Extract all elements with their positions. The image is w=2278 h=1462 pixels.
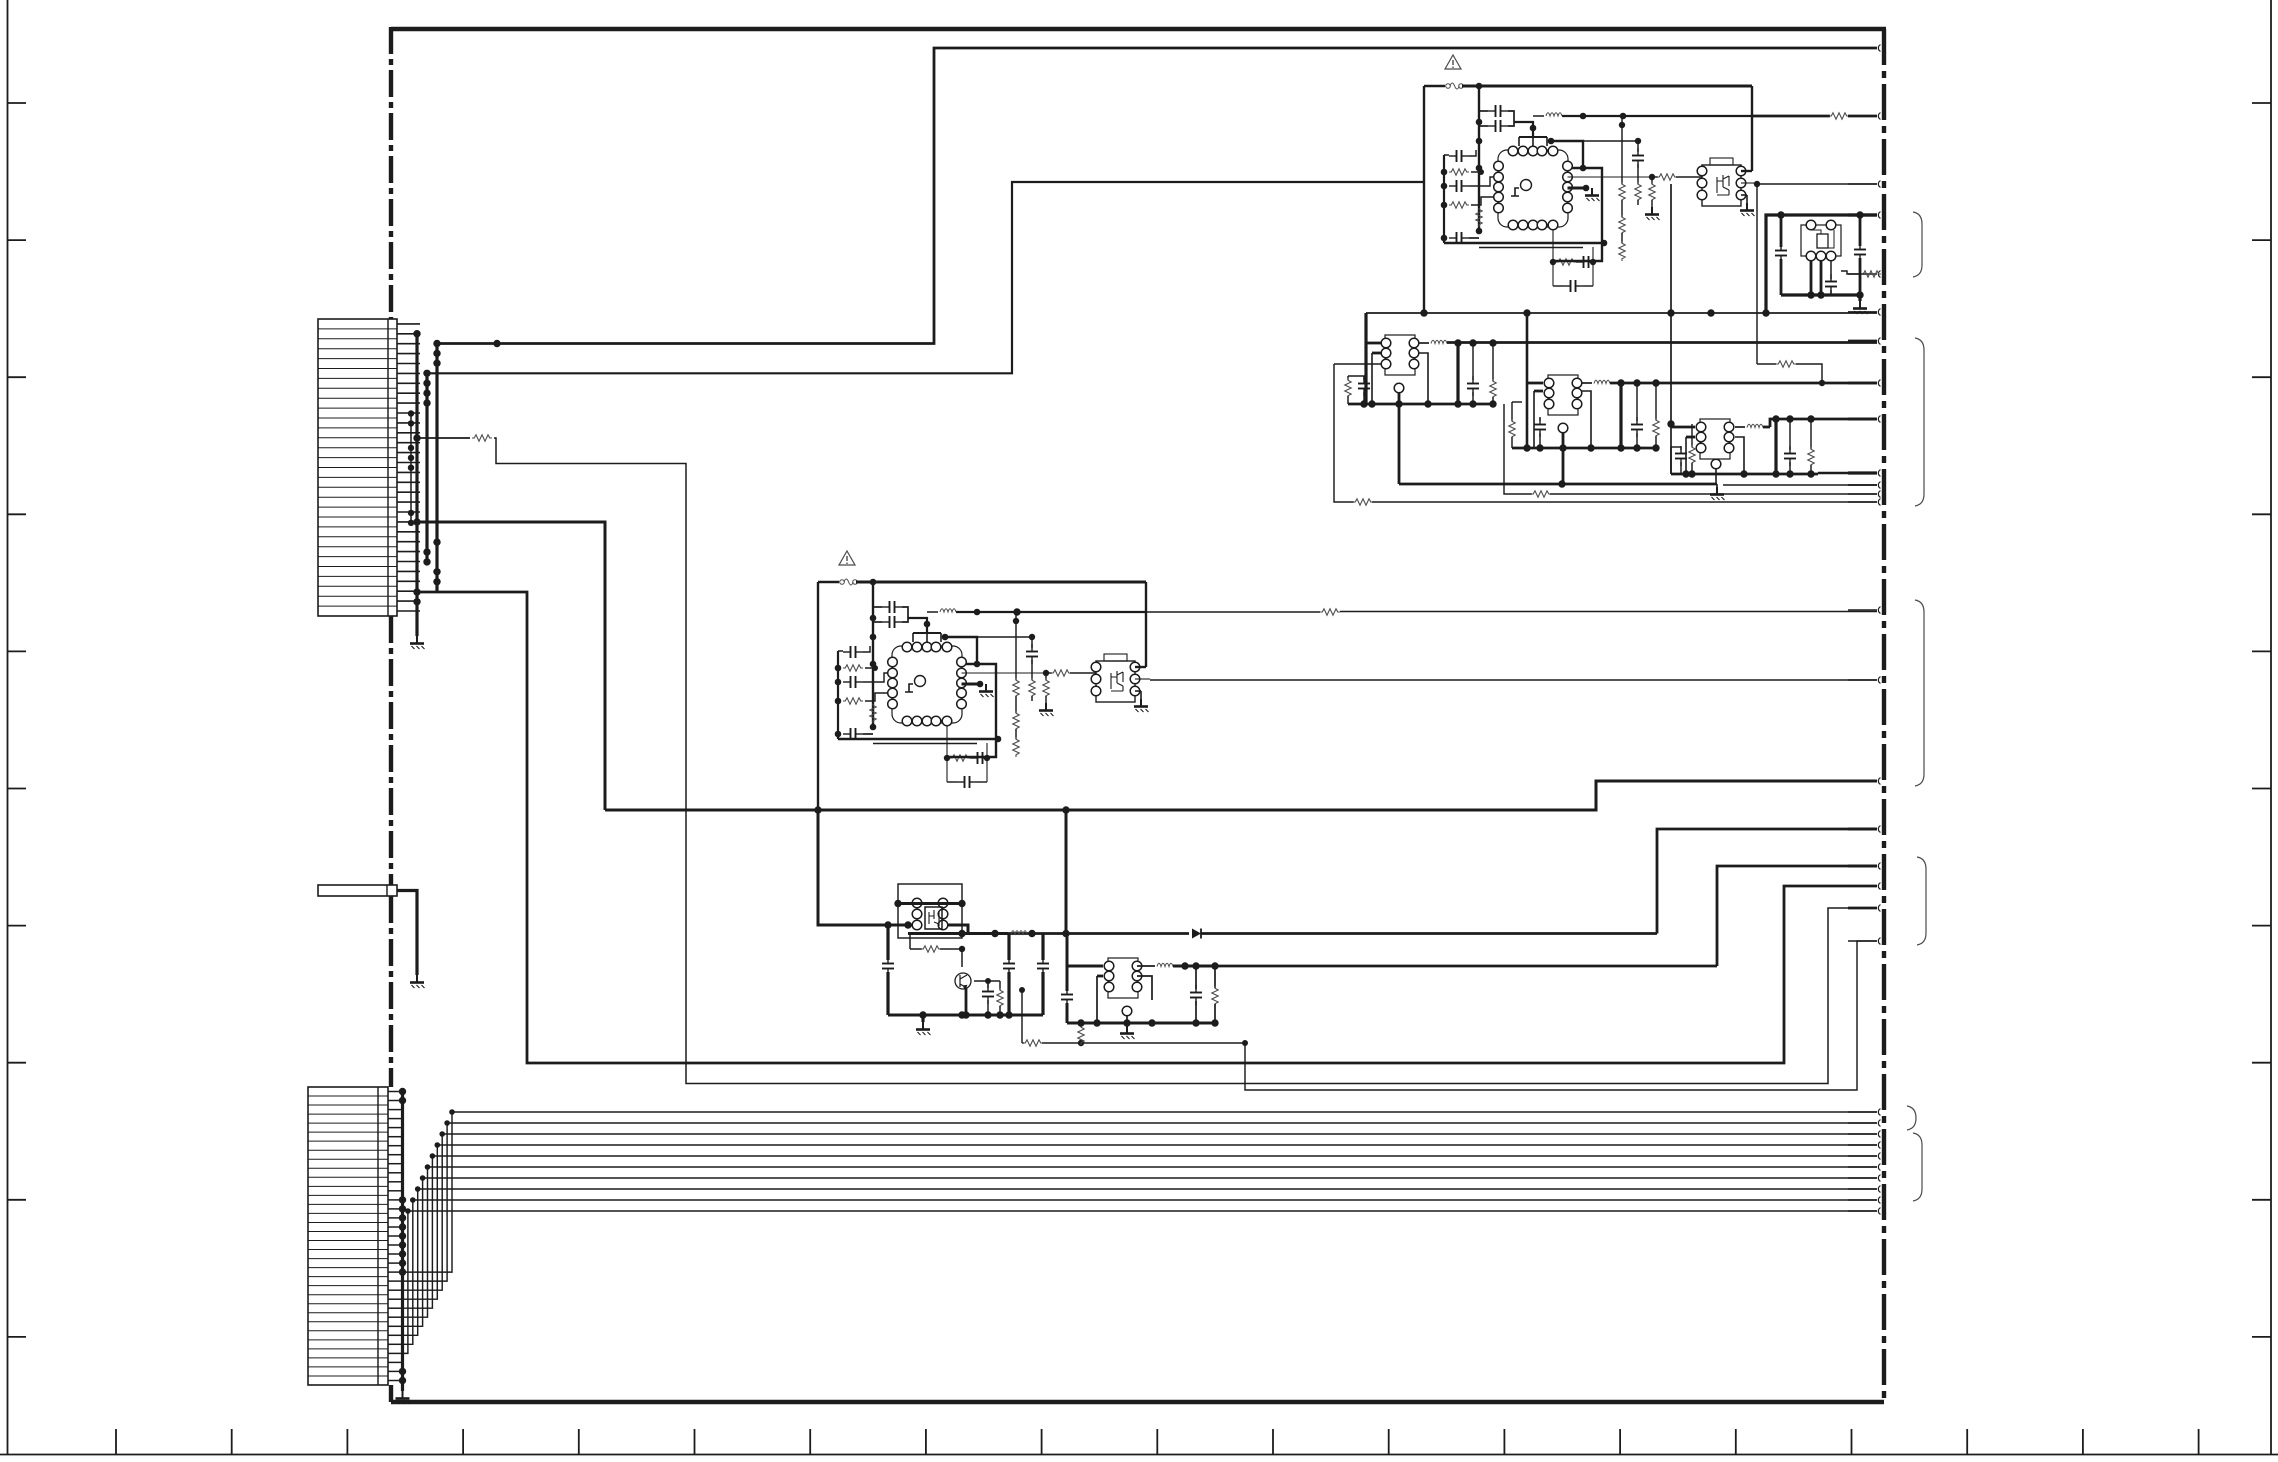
bus wire stub [1848,1177,1877,1179]
ruler tick bottom [115,1429,117,1455]
wire stub to edge y=494 [1848,493,1877,495]
resistor 2 l2 [843,665,863,671]
ruler tick bottom [1156,1429,1158,1455]
wire y485 to stub [1723,484,1877,486]
CN-C main bus wire [401,1092,404,1392]
ruler tick bottom [1619,1429,1621,1455]
bus wire stub [1848,1155,1877,1157]
wire stub to edge y=48 [1848,47,1877,49]
ruler tick right [2252,239,2271,241]
ruler tick right [2252,513,2271,515]
ruler tick right [2252,788,2271,790]
resistor column 2 r1 [1015,612,1017,680]
resistor 1 l4 [1449,202,1469,208]
thin wire y1043 with resistor [1021,990,1023,1043]
inner rail 2 [872,582,874,729]
cap column x888 [886,925,889,960]
capacitor C-11 [1488,105,1508,117]
ruler tick left [8,1336,27,1338]
8pin out wire 1 [1741,182,1756,184]
ruler tick bottom [2198,1429,2200,1455]
ruler tick left [8,1199,27,1201]
U6 right column [1774,419,1777,474]
resistor t-l [1345,378,1351,398]
right rail 1 [1751,86,1753,171]
comb feed 1 [1514,122,1533,137]
U8 right columns [1195,966,1197,989]
wire stub to edge y=829 [1848,828,1877,831]
capacitor C-21 [882,601,902,613]
wire C continues to stub y908 [494,438,1877,1084]
U4 hookup wires [1366,342,1381,345]
wire 8pin2 out to stub y680 [1150,679,1877,681]
bottom rail 2 1 [1479,247,1583,249]
wire stub to edge y=886 [1848,885,1877,887]
ruler tick bottom [694,1429,696,1455]
resistor column 1 r1 [1621,116,1623,184]
U5 bottom rail [1512,447,1656,450]
connector CN-C (bottom-left, 33-pin) [308,1087,388,1385]
ruler tick bottom [1388,1429,1390,1455]
ruler tick bottom [1272,1429,1274,1455]
ruler tick bottom [231,1429,233,1455]
U6 pin5 [1711,459,1721,469]
ruler tick bottom [2082,1429,2084,1455]
U5 out rail y383 [1610,382,1877,385]
capacitor 2 b2 [970,752,990,764]
mid rail y810 [605,781,1877,810]
transistor Q1 [955,973,971,989]
diode wire to stub y829 [1657,829,1877,934]
ground U7 [921,1015,924,1022]
resistor 1 l2 [1449,169,1469,175]
page frame: bottom ruler line [0,1454,2278,1456]
brace group 3 [1915,600,1924,786]
U8 wire to stub y866 [1717,866,1877,966]
wire stub to edge y=419 [1848,418,1877,421]
8pin top right wire 2 [1135,666,1146,668]
ruler tick left [8,513,27,515]
U7 pins [912,898,922,908]
cap/res small x988/x1000 [987,981,989,988]
wire stub to edge y=215 [1848,213,1877,216]
wire bead1 to stub y116 with resistor [1752,115,1830,118]
capacitor 1 l3 [1449,180,1469,192]
capacitor C-12 [1488,120,1508,132]
wire y473 to stub [1818,472,1877,475]
block border: left dash-dot segment 2 [389,616,393,885]
resistor 1 b1 [1556,259,1576,265]
IC U3 (4-pin) [1801,220,1841,261]
wire stub to edge y=274 [1848,273,1877,275]
ferrite U4 [1419,342,1429,344]
bus wire stub [1848,1122,1877,1124]
wire stub to edge y=866 [1848,865,1877,868]
4pin cluster top rail [1766,215,1877,313]
resistor column 1 r3 [1651,177,1653,184]
RC net right 1 [1592,247,1594,286]
block border: left dash-dot segment 1 [389,27,393,319]
capacitor 2 l5 [843,728,863,740]
bead wire 1 [1562,115,1752,117]
connector CN-A (left, 30-pin) [318,319,397,616]
IC U7 (6-pin regulator) outer box [898,884,962,938]
ferrite U5 [1582,382,1592,384]
resistor 1 lv [1476,207,1482,227]
U5 right column [1619,383,1622,448]
wire stub to edge y=941 [1848,940,1877,942]
res drop x1081 [1080,1023,1082,1027]
pin comb 1 [1519,136,1547,138]
bottom rail 1 1 [1444,242,1604,244]
wire stub to edge y=908 [1848,907,1877,910]
U8 bottom rail [1067,1022,1215,1025]
bottom rail 2 2 [873,743,977,745]
elbow to right pins 2 [945,637,977,664]
U8 left feeds [1066,934,1069,992]
ferrite bead 1 [1533,115,1544,117]
wire E : CN-A pin to lower rail y1063 [417,592,1877,1063]
wire to inline resistor 2 [962,672,1047,674]
wire stub to edge y=680 [1848,679,1877,681]
IC U-1b (8-pin) [1697,158,1746,206]
brace group 4 [1917,857,1926,945]
bus wire stub [1848,1188,1877,1190]
ruler tick right [2252,1199,2271,1201]
ruler tick left [8,376,27,378]
wire D : CN-A pin to mid rail y810 [417,522,605,810]
U7 top rail [898,902,962,905]
capacitor 2 b3 [957,776,977,788]
wire stub to edge y=781 [1848,780,1877,783]
capacitor 1 b2 [1576,256,1596,268]
elbow to right pins 1 [1551,141,1583,168]
ruler tick left [8,239,27,241]
connector CN-B (left small) [318,885,397,896]
brace group 1 [1913,212,1922,277]
RC net left 2 [946,725,948,782]
ground 8pin 1 [1740,203,1755,216]
resistor inline 1 [1657,174,1677,180]
wire stub to edge y=610 [1848,609,1877,611]
wire B : CN-A pin6 to U1 rail [427,182,1424,373]
ruler tick right [2252,102,2271,104]
capacitor 4p-l [1775,243,1787,263]
top rail 1 [1424,85,1445,87]
U7 bottom rail [888,1014,1043,1017]
page frame: left ruler line [7,0,9,1455]
U4 pin5 drop [1394,383,1404,393]
CN-C bus staircase risers [403,1112,453,1272]
ruler tick bottom [1041,1429,1043,1455]
IC U4 (6-pin) [1381,335,1419,375]
capacitor 4p-m [1825,274,1837,294]
IC U6 (6-pin) [1696,419,1734,459]
ground 8pin 2 [1134,699,1149,712]
ruler tick bottom [925,1429,927,1455]
bus wire stub [1848,1199,1877,1201]
ground near pins 2 [979,684,994,697]
ruler tick bottom [1735,1429,1737,1455]
resistor 2 l4 [843,698,863,704]
fuse 1 [1446,83,1464,89]
block border: right dash-dot edge [1882,29,1886,1402]
vertical link x1757 [1756,184,1758,364]
wire stub to edge y=383 [1848,382,1877,385]
ruler tick bottom [462,1429,464,1455]
capacitor 1 b3 [1563,280,1583,292]
capacitor 2 l1 [843,646,863,658]
top rail 2 [818,581,839,583]
cap column 2 r2 [977,636,1032,638]
U4 bottom rail [1348,403,1493,406]
8pin top right wire 1 [1741,170,1752,172]
jumper resistor to mid cluster [1757,363,1776,365]
U5 left column [1511,402,1513,421]
cap column x1009 [1007,934,1010,961]
cluster2 left rail extension down [818,809,898,925]
vertical link x1671 [1670,184,1672,474]
ferrite bead 2 [927,611,938,613]
block border: left dash-dot segment 3 [389,896,393,1087]
connector CN-C pin stubs [388,1091,403,1093]
ferrite U7 [1011,931,1027,934]
wire bead2 to stub y610 with resistor [1146,611,1320,613]
ruler tick right [2252,1062,2271,1064]
cap column x1043 [1041,934,1044,961]
left rail 2 [817,582,819,809]
wire to inline resistor 1 [1568,176,1653,178]
page frame: right ruler line [2270,0,2272,1455]
4pin cluster right cap leg [1859,215,1862,246]
wire stub to edge y=502 [1848,501,1877,503]
ruler tick left [8,788,27,790]
capacitor 1 l1 [1449,150,1469,162]
ruler tick bottom [346,1429,348,1455]
brace group 2 [1915,338,1924,506]
U5 pin5 drop [1558,423,1568,433]
capacitor 2 l3 [843,676,863,688]
CN-A pin bus wires [415,334,418,636]
wire stub to edge y=473 [1848,471,1877,474]
block border: bottom edge [391,1400,1884,1405]
brace group 5 [1907,1106,1916,1130]
ruler tick bottom [1966,1429,1968,1455]
U7 out rail y933 [948,925,968,933]
ruler tick bottom [809,1429,811,1455]
resistor inline 2 [1051,670,1071,676]
U4 right column [1456,343,1459,404]
wire 8pin1 out to stub y184 [1756,183,1877,185]
wire stub to edge y=341 [1848,340,1877,343]
U7 inner body [925,907,942,929]
ferrite U8 [1137,965,1155,967]
connector CN-A pin stubs [397,323,420,325]
U7 left feed [818,924,912,927]
ground rail y484 [1399,483,1717,486]
IC U-2b (8-pin) [1091,654,1140,702]
thin wire y494 with resistor [1504,404,1532,494]
bottom rail 1 2 [838,738,998,740]
U6 out rail y424 [1763,426,1770,429]
left rail 1 [1423,86,1425,313]
ruler tick bottom [578,1429,580,1455]
warning triangle 1 [1445,55,1461,69]
wire stub to edge y=485 [1848,484,1877,486]
capacitor 4p-r [1854,242,1866,262]
ruler tick bottom [1503,1429,1505,1455]
resistor R-a [472,435,492,441]
4pin bottom rail [1781,293,1860,296]
bus wire stub [1848,1133,1877,1135]
wire C : CN-A via resistor R-a [417,437,470,439]
4pin resistor to stub y274 [1841,271,1864,274]
ruler tick bottom [1851,1429,1853,1455]
bus wire stub [1848,1144,1877,1146]
left column rail 2 [837,651,839,739]
brace group 6 [1913,1133,1922,1201]
U8 out rail y966 [1173,965,1215,968]
U7 resistor to transistor [909,934,911,950]
bus bundle horizontal wires [452,1111,1877,1113]
capacitor C-22 [882,616,902,628]
wire stub to edge y=184 [1848,183,1877,185]
cap column 1 r2 [1583,140,1638,142]
capacitor t-l2 [1363,376,1365,380]
resistor column 2 r3 [1045,673,1047,680]
inner rail 1 [1478,86,1480,233]
diode D1 [1192,929,1201,939]
ground near pins 1 [1585,188,1600,201]
pin comb 2 [913,632,941,634]
ruler tick right [2252,925,2271,927]
ruler tick right [2252,376,2271,378]
RC net left 1 [1552,229,1554,286]
fuse 2 [840,579,858,585]
IC U5 (6-pin) [1544,375,1582,415]
ground below CN-A [410,636,425,649]
bus wire stub [1848,1111,1877,1113]
resistor 2 b1 [950,755,970,761]
capacitor 1 l5 [1449,232,1469,244]
U5 left drop [1526,313,1529,448]
ruler tick left [8,102,27,104]
ground trio [1710,487,1725,500]
U8 pin5 + ground [1122,1006,1132,1016]
block border: left dash-dot segment 4 [389,1385,393,1402]
4pin cluster left cap leg [1780,215,1783,247]
thin wire y502 with resistor [1334,364,1354,502]
ruler tick right [2252,1336,2271,1338]
U6 bottom rail [1671,473,1818,476]
IC U-2 (QFP) [888,642,967,726]
ground 4p [1858,295,1861,301]
block border: top edge [391,27,1886,32]
ruler tick left [8,650,27,652]
8pin out wire 2 [1135,678,1150,680]
thick right bend 2 [947,664,996,757]
wire stub to edge y=116 [1848,115,1877,117]
U6 left column [1670,447,1672,474]
vertical x1066 link [1065,810,1068,934]
warning triangle 2 [839,551,855,565]
comb feed 2 [908,618,927,633]
IC U8 (6-pin) [1104,958,1142,998]
right rail 2 [1145,582,1147,667]
RC net right 2 [986,743,988,782]
4pin pin drops [1810,261,1813,295]
ground below CN-C [396,1391,411,1404]
cap inline x1067 [1061,987,1073,1007]
U4 out rail y343 [1447,341,1877,344]
Q1 emitter drop [965,988,968,1015]
thick right bend 1 [1553,168,1602,261]
ferrite U6 [1735,426,1745,428]
IC U-1 (QFP) [1494,146,1573,230]
bus wire stub [1848,1210,1877,1212]
wire F : lower thin rail y1090 [1245,941,1877,1090]
rail y313 [1366,312,1877,314]
bead wire 2 [956,611,1146,613]
CN-B wire to ground [397,891,417,976]
wire stub to edge y=312 [1848,311,1877,313]
resistor 2 lv [870,703,876,723]
wire A : CN-A pin3 to top edge stub [437,48,1877,344]
trio left drop [1364,313,1367,376]
ruler tick left [8,1062,27,1064]
ruler tick right [2252,650,2271,652]
left column rail 1 [1443,155,1445,243]
ruler tick left [8,925,27,927]
bus wire stub [1848,1166,1877,1168]
